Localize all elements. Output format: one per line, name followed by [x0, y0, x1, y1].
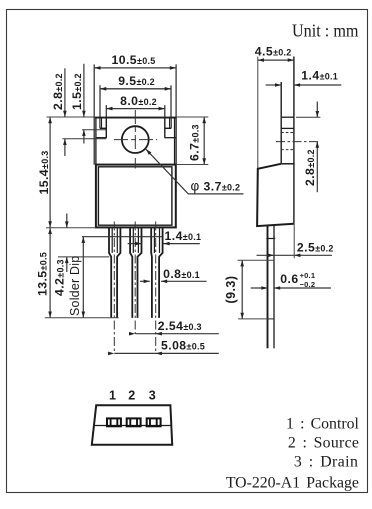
dim 4.5: [258, 59, 294, 61]
ledge right: [165, 137, 176, 139]
svg-text:5.08±0.5: 5.08±0.5: [161, 338, 205, 352]
svg-text:1: 1: [109, 388, 116, 402]
dim 1.4 front: [128, 243, 200, 245]
lead lower tick: [267, 318, 275, 320]
tab right edge: [174, 117, 176, 165]
dim 10.5: [94, 64, 176, 117]
svg-text:−0.2: −0.2: [300, 280, 316, 289]
leg 3: [151, 227, 162, 318]
hole hidden line bottom: [281, 149, 294, 151]
lead right edge: [273, 225, 275, 348]
dim 13.5: [49, 228, 51, 318]
svg-text:φ 3.7±0.2: φ 3.7±0.2: [191, 179, 241, 194]
svg-text:2.54±0.3: 2.54±0.3: [158, 319, 202, 333]
notch right outer wall: [169, 117, 171, 128]
dim 9.5: [100, 85, 171, 117]
tab top edge: [95, 117, 176, 119]
svg-text:10.5±0.5: 10.5±0.5: [112, 53, 156, 67]
leg 2: [130, 227, 141, 318]
hole crosshair: [114, 110, 157, 169]
solder dip dim: [82, 237, 84, 318]
svg-text:3: 3: [149, 388, 156, 402]
svg-text:8.0±0.2: 8.0±0.2: [120, 94, 157, 108]
tab strip left edge: [280, 82, 282, 164]
ledge left: [96, 137, 107, 139]
pin 1: [107, 418, 121, 426]
tab strip notch line: [281, 127, 294, 129]
svg-text:1.4±0.1: 1.4±0.1: [165, 229, 202, 243]
hole centerline side: [276, 141, 320, 143]
parting line: [94, 425, 171, 427]
svg-text:6.7±0.3: 6.7±0.3: [188, 124, 202, 161]
svg-text:15.4±0.3: 15.4±0.3: [37, 151, 51, 195]
svg-text:13.5±0.5: 13.5±0.5: [36, 252, 50, 296]
dim 0.6: [251, 287, 331, 289]
dim 2.54: [135, 333, 219, 335]
body bottom extension: [46, 227, 96, 229]
dim 6.7: [203, 117, 205, 165]
pin 3: [147, 418, 161, 426]
svg-text:Solder Dip: Solder Dip: [68, 256, 82, 316]
notch left outer wall: [99, 117, 101, 128]
dim 5.08: [114, 352, 219, 354]
svg-text:2.8±0.2: 2.8±0.2: [51, 73, 65, 110]
dim 9.3: [238, 259, 275, 261]
legs: [109, 227, 163, 318]
notch left bottom: [100, 127, 106, 129]
hole hidden line top: [281, 132, 294, 134]
hole dia label + leader: [146, 149, 244, 194]
pin 2: [127, 418, 141, 426]
svg-text:9.5±0.2: 9.5±0.2: [118, 74, 155, 88]
body outer rect: [96, 165, 176, 228]
right edge (back face): [293, 57, 295, 224]
svg-text:2.8±0.2: 2.8±0.2: [303, 149, 317, 186]
svg-text:(9.3): (9.3): [224, 276, 238, 304]
dim 8.0: [106, 105, 165, 117]
notch left inner wall: [105, 117, 107, 138]
svg-text:1.5±0.2: 1.5±0.2: [70, 73, 84, 110]
svg-text:2.5±0.2: 2.5±0.2: [297, 241, 334, 255]
dim 1.4 side: [266, 84, 342, 86]
bottom view outline: [92, 405, 172, 444]
svg-text:4.5±0.2: 4.5±0.2: [255, 45, 292, 59]
svg-text:1 : Control: 1 : Control: [286, 416, 359, 433]
notch right inner wall: [164, 117, 166, 138]
dim 2.8 side: [296, 102, 320, 193]
dim 0.8: [140, 280, 207, 282]
wire: tab top extension line: [47, 116, 209, 118]
svg-text:0.6: 0.6: [280, 272, 298, 286]
body outline side: [257, 164, 294, 226]
left extension line: [257, 57, 259, 169]
svg-text:0.8±0.1: 0.8±0.1: [163, 267, 200, 281]
tab strip bottom: [281, 163, 294, 165]
notch right bottom: [165, 127, 171, 129]
svg-text:TO-220-A1 Package: TO-220-A1 Package: [226, 475, 359, 492]
svg-text:+0.1: +0.1: [300, 271, 316, 280]
tab strip top line: [281, 116, 294, 118]
leg tip extension: [45, 317, 119, 319]
svg-text:1.4±0.1: 1.4±0.1: [301, 69, 338, 83]
dim 15.4: [49, 117, 51, 228]
svg-text:Unit : mm: Unit : mm: [292, 21, 359, 41]
svg-text:3 : Drain: 3 : Drain: [294, 453, 358, 470]
svg-text:4.2±0.3: 4.2±0.3: [53, 259, 67, 296]
lead upper tick: [266, 238, 275, 240]
svg-text:2: 2: [128, 388, 135, 402]
body inner rect: [98, 167, 171, 225]
lead left edge: [267, 226, 269, 348]
leg 1: [109, 227, 120, 318]
dim 2.5: [257, 254, 332, 256]
mounting hole: [122, 126, 149, 153]
dim 4.2: [58, 214, 109, 273]
dim 2.8 left: [63, 68, 107, 156]
tab left edge: [93, 117, 95, 165]
leg centerlines: [114, 222, 155, 354]
solder dip level line: [82, 236, 163, 238]
svg-text:2 : Source: 2 : Source: [288, 435, 359, 452]
dim 1.5 left: [82, 64, 106, 144]
